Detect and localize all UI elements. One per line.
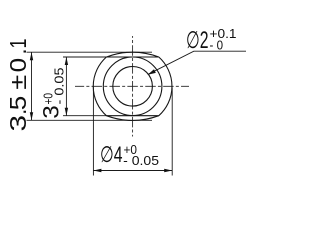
svg-text:0: 0	[5, 58, 31, 73]
svg-text:1: 1	[5, 39, 31, 49]
svg-text:- 0.05: - 0.05	[123, 153, 159, 168]
svg-text:- 0: - 0	[210, 38, 224, 53]
svg-text:3: 3	[5, 115, 31, 132]
svg-text:∅2: ∅2	[186, 27, 209, 54]
svg-text:∅4: ∅4	[100, 142, 123, 167]
svg-text:5: 5	[5, 96, 31, 111]
svg-text:±: ±	[5, 75, 31, 90]
svg-text:3: 3	[39, 105, 64, 119]
svg-text:- 0.05: - 0.05	[52, 68, 67, 105]
